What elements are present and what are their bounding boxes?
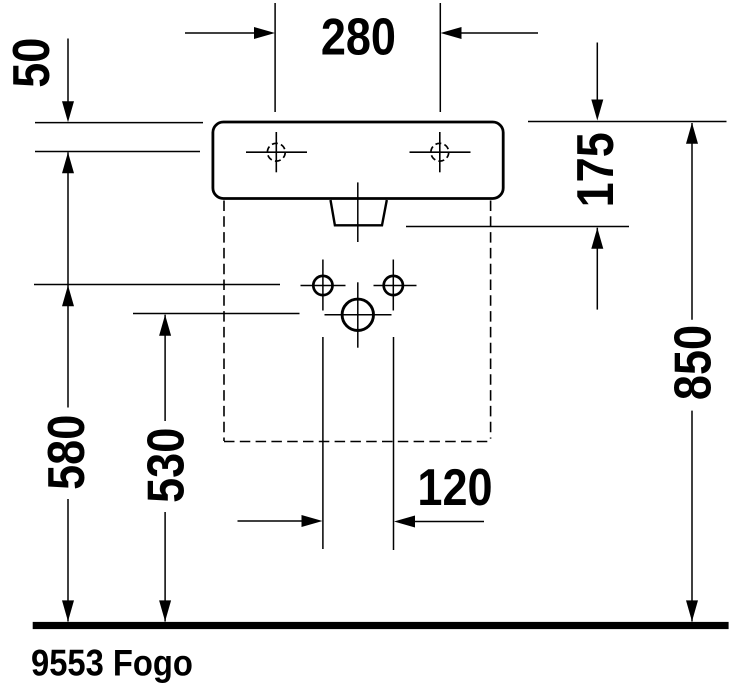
svg-text:120: 120 xyxy=(417,459,492,516)
svg-text:9553 Fogo: 9553 Fogo xyxy=(31,643,193,684)
svg-text:530: 530 xyxy=(138,428,195,503)
svg-text:580: 580 xyxy=(38,415,95,490)
svg-text:175: 175 xyxy=(567,132,624,207)
svg-text:50: 50 xyxy=(3,38,60,88)
svg-text:280: 280 xyxy=(321,9,396,66)
svg-text:850: 850 xyxy=(665,325,722,400)
